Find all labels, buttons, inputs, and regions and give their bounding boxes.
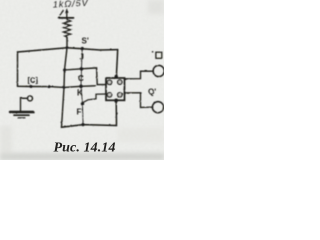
- junction: label bus meets bottom wire: [81, 123, 84, 126]
- wire: x82 label bus vertical: [81, 49, 83, 125]
- switch contact dot left: [30, 85, 33, 88]
- wire: bottom wire: [62, 125, 117, 128]
- label Q (small square): [156, 52, 162, 58]
- wire: lower-left feed into box: [83, 94, 106, 103]
- junction: C wire meets left bus: [63, 69, 66, 72]
- paper background: [0, 0, 164, 160]
- svg-text:J: J: [80, 53, 84, 62]
- ground terminal circle: [28, 96, 33, 101]
- lamp Q (top output circle): [153, 65, 164, 76]
- ground bars: [10, 111, 34, 113]
- supply +U arrow: [66, 11, 68, 18]
- pin circle top-right: [118, 80, 122, 84]
- wire: main left bus (resistor down to bottom-left corner): [62, 38, 68, 127]
- wire: Q output to top lamp: [124, 71, 153, 79]
- box top pin dot: [115, 75, 119, 79]
- svg-text:F': F': [77, 108, 84, 117]
- flip-flop box U1: [106, 78, 125, 100]
- wire: C wire from bus: [65, 68, 106, 85]
- wire: right vertical of top rail down to box top pin: [116, 50, 117, 76]
- resistor R 1k (vertical zigzag): [64, 19, 71, 39]
- pin circle top-left: [107, 80, 111, 84]
- svg-text:S': S': [82, 37, 89, 46]
- junction node F' on label bus: [81, 102, 84, 105]
- svg-text:C: C: [78, 74, 84, 83]
- svg-text:Рис. 14.14: Рис. 14.14: [54, 141, 116, 156]
- wire: left vertical: [17, 52, 19, 86]
- junction: K wire crosses left bus: [63, 86, 66, 89]
- svg-text:K: K: [77, 89, 83, 98]
- pin circle bottom-right: [118, 93, 122, 97]
- junction: resistor bus meets top rail: [66, 46, 69, 49]
- wire: J stub to clock vertical: [82, 49, 118, 50]
- svg-text:Q': Q': [148, 87, 156, 96]
- ground wire: [21, 98, 28, 111]
- box bottom pin dot: [114, 99, 118, 103]
- wire: bottom-right vertical to box bottom pin: [115, 101, 117, 126]
- wire: top rail: [18, 48, 83, 52]
- lamp Q' (bottom output circle): [152, 102, 163, 113]
- pin circle bottom-left: [107, 93, 111, 97]
- junction node K on label bus: [79, 85, 83, 89]
- wire: switch / K row wire: [18, 86, 96, 88]
- paper smudges: [0, 0, 164, 160]
- junction node S' on rail: [81, 47, 84, 50]
- junction node C on label bus: [80, 67, 84, 71]
- wire: Q' output to bottom lamp: [124, 93, 152, 108]
- switch contact dot right: [48, 85, 51, 88]
- svg-text:[C]: [C]: [28, 76, 39, 85]
